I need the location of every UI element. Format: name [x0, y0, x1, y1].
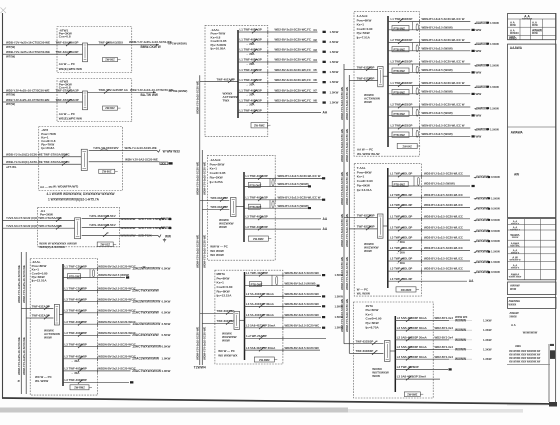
- svg-text:L3 5A-40Z3/3P 30mA: L3 5A-40Z3/3P 30mA: [246, 302, 274, 306]
- meter ZW-RMZ -2AAL: [70, 385, 89, 390]
- svg-text:ZW-RMZ: ZW-RMZ: [74, 386, 85, 390]
- svg-text:WDN-BYJ-3x2.5-SC20-WL/CC W: WDN-BYJ-3x2.5-SC20-WL/CC W: [422, 38, 465, 42]
- svg-text:PTB-5MZ: PTB-5MZ: [394, 27, 406, 31]
- title block main box: [508, 44, 557, 217]
- svg-text:WDM-YJV-5x16-SC50-WE: WDM-YJV-5x16-SC50-WE: [345, 172, 349, 205]
- svg-text:WD2-BYJ-3x2.5-SC20-WL/CC: WD2-BYJ-3x2.5-SC20-WL/CC: [424, 193, 463, 197]
- outgoing feeder wire -ATW1: [88, 44, 160, 46]
- surge sub-branch PTB2 -1AALE: [269, 200, 271, 208]
- svg-text:L1 TWF-40Z8/3P: L1 TWF-40Z8/3P: [391, 81, 413, 85]
- riser wire WL5: [343, 64, 345, 344]
- svg-text:WD2-BYJ-5x2.5 (WXW): WD2-BYJ-5x2.5 (WXW): [424, 182, 455, 186]
- svg-text:1.0KW: 1.0KW: [162, 357, 171, 361]
- svg-text:1.3KW: 1.3KW: [483, 338, 492, 342]
- svg-text:WDM-YJV-4x25+16-SC50-WE: WDM-YJV-4x25+16-SC50-WE: [17, 337, 21, 375]
- riser wire WL4: [201, 150, 203, 365]
- breaker QF2 -AP3: [62, 162, 68, 166]
- svg-text:L1 TWF-40Z3/3P: L1 TWF-40Z3/3P: [246, 271, 268, 275]
- svg-text:1.0KW: 1.0KW: [162, 369, 171, 373]
- breaker row L1 4-STA: [395, 320, 449, 322]
- svg-text:13A23WXWXWXW: 13A23WXWXWXW: [132, 300, 161, 304]
- svg-text:0.5KW: 0.5KW: [162, 333, 171, 337]
- breaker row L2 -MBTA: [245, 296, 322, 298]
- panel -1AAL enclosure: [205, 25, 268, 136]
- faint bottom line: [507, 404, 548, 406]
- svg-text:WWW/WW: WWW/WW: [120, 234, 135, 238]
- svg-text:TWX: TWX: [223, 99, 230, 103]
- incoming wire to -AP3 row1: [3, 156, 82, 158]
- svg-text:W WW W33: W WW W33: [163, 149, 180, 153]
- svg-text:TWF-63Z8/3P: TWF-63Z8/3P: [356, 349, 374, 353]
- riser wire WL1: [20, 252, 22, 309]
- breaker row L8 -1AAL: [238, 102, 318, 104]
- svg-text:1.5KW: 1.5KW: [491, 250, 500, 254]
- svg-text:WDM-YJV-5x16-SC50-WE: WDM-YJV-5x16-SC50-WE: [203, 327, 207, 360]
- svg-text:WXW: WXW: [364, 100, 372, 104]
- svg-text:WD2N-BV-3x2.5-SC20-WC: WD2N-BV-3x2.5-SC20-WC: [285, 292, 320, 296]
- surge sub-branch PTB4 4-AALE: [412, 86, 414, 94]
- svg-text:0.5KW: 0.5KW: [491, 175, 500, 179]
- ATSE U5 -2AAL: [54, 304, 59, 325]
- svg-text:L1 TWF-40PA/3P: L1 TWF-40PA/3P: [240, 28, 262, 32]
- svg-text:→ 20A: → 20A: [246, 93, 256, 97]
- svg-text:ZW-80Z: ZW-80Z: [105, 106, 115, 110]
- svg-text:PTB-5MZ: PTB-5MZ: [394, 69, 406, 73]
- svg-text:1.5KW: 1.5KW: [490, 106, 499, 110]
- title block header table: [508, 14, 557, 40]
- surge sub-branch PTB -MBTA: [271, 275, 273, 286]
- svg-text:WXWXW W: WXWXW W: [509, 260, 520, 262]
- svg-text:PTB-DMZ: PTB-DMZ: [251, 282, 263, 286]
- svg-text:WDM-YJV-5x16-SC50-WE: WDM-YJV-5x16-SC50-WE: [345, 214, 349, 247]
- svg-text:WD2N-BV-3x2.5-SC20-WC: WD2N-BV-3x2.5-SC20-WC: [285, 324, 320, 328]
- svg-text:L2 5AB-40Z8/3P 30mA: L2 5AB-40Z8/3P 30mA: [397, 326, 427, 330]
- svg-text:Ijs=13.01A: Ijs=13.01A: [357, 188, 373, 192]
- svg-text:0.5KW: 0.5KW: [162, 300, 171, 304]
- svg-text:(XX): (XX): [161, 161, 166, 165]
- svg-text:WDN-BYJ-5x2.5 (WXW): WDN-BYJ-5x2.5 (WXW): [278, 182, 309, 186]
- svg-text:L1 TWF-40PA/3P: L1 TWF-40PA/3P: [240, 108, 262, 112]
- svg-text:Ijs=20.8A: Ijs=20.8A: [41, 146, 55, 150]
- svg-text:L2 5AB-40Z8/3P 30mA: L2 5AB-40Z8/3P 30mA: [397, 316, 427, 320]
- breaker row L3 -1AAL: [238, 51, 318, 53]
- riser wire WL3: [199, 75, 201, 365]
- svg-text:AWAWA: AWAWA: [511, 131, 524, 135]
- svg-text:ZW-80Z: ZW-80Z: [102, 169, 112, 173]
- svg-text:WD2-BYJ-3x2.5-SC20-WL/CC: WD2-BYJ-3x2.5-SC20-WL/CC: [424, 257, 463, 261]
- svg-text:W2N-YJV-5A2-SC20-WE: W2N-YJV-5A2-SC20-WE: [125, 158, 158, 162]
- svg-text:0.5KW: 0.5KW: [491, 218, 500, 222]
- svg-text:25ACTWXWXWW: 25ACTWXWXWW: [132, 289, 160, 293]
- svg-text:WD2-BV-3x10-SC20-WC,FC: WD2-BV-3x10-SC20-WC,FC: [275, 98, 311, 102]
- breaker row L7 -MBTA: [245, 349, 321, 351]
- ATSE U11 4-STA: [385, 341, 391, 362]
- svg-text:XW WXWX XWX WXWXW XW: XW WXWX XWX WXWXW XW: [509, 355, 541, 357]
- svg-text:WW: WW: [476, 134, 482, 138]
- incoming wire WD21 to -ATW2: [3, 92, 83, 94]
- svg-text:WDN-BYJ-5x2.5 (WXW): WDN-BYJ-5x2.5 (WXW): [422, 68, 453, 72]
- panel -ATW1 enclosure: [57, 27, 132, 73]
- svg-text:WDN-BYJ-3x2.5-SC20-WL/CC W: WDN-BYJ-3x2.5-SC20-WL/CC W: [422, 124, 465, 128]
- svg-text:WXW: WXW: [532, 25, 539, 27]
- svg-text:WD2N-BV-3x2.5 (WXW): WD2N-BV-3x2.5 (WXW): [98, 273, 129, 277]
- svg-text:L3 TWF-40DL/3P: L3 TWF-40DL/3P: [65, 297, 87, 301]
- incoming breaker QF2 4-STA: [354, 352, 384, 354]
- svg-text:WDM-YJV-5x16-SC50-WE: WDM-YJV-5x16-SC50-WE: [203, 162, 207, 195]
- svg-text:WT(W): WT(W): [6, 93, 15, 97]
- breaker row L10 T-AAL: [388, 280, 467, 282]
- bus bar -1AAL: [237, 30, 239, 118]
- svg-text:WXW: WXW: [532, 33, 539, 35]
- breaker row L6 4-AALE: [388, 127, 470, 129]
- bus bar -2AAL: [62, 264, 64, 386]
- branch terminal 2: [159, 227, 162, 230]
- breaker row L1 -MBTA: [245, 274, 322, 276]
- svg-text:TWF-63A/63A/3P: TWF-63A/63A/3P: [56, 41, 79, 45]
- svg-text:WXWW: WXWW: [455, 328, 466, 332]
- svg-text:AWAW: AWAW: [509, 311, 518, 315]
- svg-text:L1 TWF-40DL/3P: L1 TWF-40DL/3P: [246, 174, 268, 178]
- svg-text:WD2-BYJ-3x2.5-SC20-WL/CC: WD2-BYJ-3x2.5-SC20-WL/CC: [424, 172, 463, 176]
- svg-text:L1 TWF-C20L/3P: L1 TWF-C20L/3P: [65, 286, 87, 290]
- breaker row L7 4-STA: [395, 378, 440, 380]
- svg-text:WDN-BYJ-5x2.5 (WXW): WDN-BYJ-5x2.5 (WXW): [422, 132, 453, 136]
- svg-text:WDM-YJV-5x16-SC50-WE: WDM-YJV-5x16-SC50-WE: [203, 235, 207, 268]
- svg-text:BA-TW WW: BA-TW WW: [141, 93, 158, 97]
- svg-text:WDB-YJ-5x10(C)-SC50-WE TWF-ST: WDB-YJ-5x10(C)-SC50-WE TWF-STA/5A/3P/2C: [6, 160, 70, 164]
- breaker row L8 -2AAL: [63, 358, 131, 360]
- svg-text:WXWW: WXWW: [455, 338, 466, 342]
- svg-text:TWF-63A/63A/3P: TWF-63A/63A/3P: [56, 50, 79, 54]
- incoming breaker QF1 4-STA: [354, 343, 384, 345]
- svg-text:WD2-BYJ-3x4: WD2-BYJ-3x4: [435, 316, 454, 320]
- panel -2AAL enclosure: [30, 259, 97, 396]
- meter ZW-80Z -AP3: [99, 169, 115, 173]
- svg-text:WD2N-BV-3x2.5-SC20-WC/C: WD2N-BV-3x2.5-SC20-WC/C: [98, 331, 136, 335]
- svg-text:1.5KW: 1.5KW: [330, 101, 339, 105]
- svg-text:TWF-5M/5A/3/2DX: TWF-5M/5A/3/2DX: [99, 40, 124, 44]
- svg-text:WD2-BV-3x10-SC20-WC,FC: WD2-BV-3x10-SC20-WC,FC: [275, 38, 311, 42]
- svg-text:N1: N1: [314, 28, 318, 32]
- svg-text:ZW-RMZ: ZW-RMZ: [254, 124, 265, 128]
- svg-text:ZW-80Z: ZW-80Z: [105, 58, 115, 62]
- svg-text:→ 20A: → 20A: [246, 62, 256, 66]
- svg-text:WGS(X)-2-S0/SDK: WGS(X)-2-S0/SDK: [39, 245, 66, 249]
- breaker row L7 -2AAL: [63, 346, 131, 348]
- svg-text:1.5KW: 1.5KW: [490, 42, 499, 46]
- svg-text:L3 5A-40Z3/3P 30mA: L3 5A-40Z3/3P 30mA: [246, 313, 274, 317]
- incoming breaker QF2 -2AAL: [30, 317, 53, 319]
- ground symbol: [163, 238, 166, 241]
- svg-text:L2 5AB-40Z8/3P 30mA: L2 5AB-40Z8/3P 30mA: [397, 355, 427, 359]
- svg-text:Ijs=3.25A: Ijs=3.25A: [209, 180, 223, 184]
- svg-text:WDN-BYJ-3x2.5-SC20-WL/CC W: WDN-BYJ-3x2.5-SC20-WL/CC W: [422, 60, 465, 64]
- svg-text:WL WXW: WL WXW: [357, 292, 370, 296]
- outgoing feeder wire -ATW2: [88, 91, 157, 93]
- breaker QF1 -AP3: [62, 154, 68, 158]
- riser WL3 tap to -1AAL: [200, 81, 205, 83]
- svg-text:1.5KW: 1.5KW: [330, 80, 339, 84]
- svg-text:TWF-STA/63A/3P: TWF-STA/63A/3P: [56, 88, 79, 92]
- svg-text:Cos=0.8: Cos=0.8: [59, 35, 71, 39]
- svg-text:WXW: WXW: [510, 288, 517, 291]
- breaker row L5 -2AAL: [63, 323, 131, 325]
- svg-text:WD2-BYJ-3x2.5-SC20-WL/CC: WD2-BYJ-3x2.5-SC20-WL/CC: [424, 203, 463, 207]
- stamp right edge: [548, 344, 550, 402]
- svg-text:AA: AA: [323, 111, 328, 115]
- svg-text:L1 TWF-40Z8/3P: L1 TWF-40Z8/3P: [391, 17, 413, 21]
- outgoing feeder wire 1 -AP3: [89, 150, 157, 152]
- svg-text:WDM-YJV-5x16-SC50-WE: WDM-YJV-5x16-SC50-WE: [196, 327, 200, 360]
- title block divider: [508, 126, 557, 128]
- svg-text:AWA: AWA: [515, 344, 521, 348]
- svg-text:PTB-5MZ: PTB-5MZ: [394, 112, 406, 116]
- svg-text:N2: N2: [314, 38, 318, 42]
- svg-text:WT(W): WT(W): [6, 54, 15, 58]
- breaker row L5 4-AALE: [388, 106, 470, 108]
- svg-text:L2 5AB-40Z8/3P 30mA: L2 5AB-40Z8/3P 30mA: [397, 336, 427, 340]
- svg-text:Ijs=13.51A: Ijs=13.51A: [31, 279, 47, 283]
- breaker row L3 -1AALE: [244, 218, 321, 220]
- svg-text:AWAWA: AWAWA: [509, 299, 521, 303]
- svg-text:PTB-5MZ: PTB-5MZ: [394, 133, 406, 137]
- svg-text:N3: N3: [314, 48, 318, 52]
- svg-text:13A23WXWXWXW: 13A23WXWXWXW: [132, 267, 161, 271]
- svg-text:WD2-BYJ-3x4: WD2-BYJ-3x4: [435, 336, 454, 340]
- svg-text:1.5KW: 1.5KW: [330, 60, 339, 64]
- incoming breaker QF2 -MBTA: [202, 322, 233, 324]
- meter ZW-8SZ -G1: [97, 242, 113, 247]
- svg-text:N6: N6: [314, 78, 318, 82]
- breaker row L7 -1AAL: [238, 92, 318, 94]
- svg-text:WX WXW WX: WX WXW WX: [218, 353, 237, 357]
- svg-text:WD2N-BV-3x2.5-SC20-WC/C: WD2N-BV-3x2.5-SC20-WC/C: [98, 297, 136, 301]
- generator output wire 1: [82, 218, 165, 220]
- svg-text:AA W — PC: AA W — PC: [59, 62, 76, 66]
- stamp area divider: [507, 363, 550, 365]
- svg-text:WD2-BYJ-3x2.5-SC20-WL/CC: WD2-BYJ-3x2.5-SC20-WL/CC: [424, 267, 463, 271]
- surge sub-branch PTB3 4-AALE: [412, 64, 414, 72]
- svg-text:→ 20A: → 20A: [246, 82, 256, 86]
- svg-text:ZW-RMZ: ZW-RMZ: [401, 288, 412, 292]
- breaker row L1 -2AAL: [63, 268, 131, 270]
- svg-text:1.5KW: 1.5KW: [330, 30, 339, 34]
- svg-text:WW: WW: [476, 70, 482, 74]
- breaker row L2 4-STA: [395, 329, 449, 331]
- svg-text:25ACTWXWXWXW: 25ACTWXWXWXW: [132, 369, 162, 373]
- svg-text:WD2-BV-3x10-SC20-WC,FC: WD2-BV-3x10-SC20-WC,FC: [275, 78, 311, 82]
- svg-text:WD2N-BV-3x2.5-SC20-WC: WD2N-BV-3x2.5-SC20-WC: [285, 302, 320, 306]
- svg-text:XWXW: XWXW: [512, 237, 519, 239]
- svg-text:YJV2-S0-CT-SC22 (C)K TWF-CTA/: YJV2-S0-CT-SC22 (C)K TWF-CTA/5A/3Pb: [6, 224, 62, 228]
- svg-text:N5: N5: [314, 68, 318, 72]
- svg-text:W: W: [143, 265, 146, 269]
- svg-text:WW: WW: [476, 113, 482, 117]
- svg-text:XWXWXW: XWXWXW: [522, 18, 532, 20]
- svg-text:AA: AA: [469, 279, 474, 283]
- svg-text:2.5KW: 2.5KW: [330, 40, 339, 44]
- incoming breaker QF1 -1AALE: [200, 199, 230, 201]
- svg-text:WXWW: WXWW: [455, 319, 466, 323]
- svg-text:WT(W): WT(W): [6, 45, 15, 49]
- meter ZW 4-STA: [404, 392, 420, 397]
- svg-text:T2WW4: T2WW4: [194, 366, 206, 370]
- generator output wire 3: [82, 235, 158, 237]
- bus bar T-AAL: [387, 168, 389, 288]
- incoming breaker QF2 T-AAL: [349, 228, 377, 230]
- breaker row L4 -1AALE: [244, 228, 321, 230]
- panel -1AALE enclosure: [207, 155, 275, 260]
- svg-text:L3 TWF-40DL/3P: L3 TWF-40DL/3P: [65, 331, 87, 335]
- svg-text:YJFS-4SZ/3X/3.5KV: YJFS-4SZ/3X/3.5KV: [89, 214, 116, 218]
- svg-text:WDM-YJV-5x16-SC50-WE: WDM-YJV-5x16-SC50-WE: [340, 214, 344, 247]
- svg-text:WDM-YJV-5x16-SC50-WE: WDM-YJV-5x16-SC50-WE: [340, 299, 344, 332]
- svg-text:WD2-BYJ-3x2.5-SC20-WL/CC: WD2-BYJ-3x2.5-SC20-WL/CC: [424, 246, 463, 250]
- svg-text:L2 TWF-40Z8/3P: L2 TWF-40Z8/3P: [391, 38, 413, 42]
- surge sub-branch PTB5 4-AALE: [412, 107, 414, 115]
- svg-text:WW W — PC: WW W — PC: [210, 245, 228, 249]
- breaker row L4 -MBTA: [245, 316, 322, 318]
- svg-text:WD2-BYJ-3x2.5-SC20-WL/CC: WD2-BYJ-3x2.5-SC20-WL/CC: [424, 236, 463, 240]
- svg-text:WD2N-BV-3x2.5-SC20-WC: WD2N-BV-3x2.5-SC20-WC: [285, 346, 320, 350]
- svg-text:XW WXWX XWX WXWXW XW: XW WXWX XWX WXWXW XW: [509, 358, 541, 360]
- breaker row L6 -1AAL: [238, 81, 318, 83]
- svg-text:XWWQ: XWWQ: [509, 39, 517, 41]
- svg-text:WD2N-BV-3x2.5-SC20-WC: WD2N-BV-3x2.5-SC20-WC: [285, 271, 320, 275]
- meter ZW-80Z -ATW2: [103, 106, 118, 110]
- ATSE U10 T-AAL: [378, 214, 384, 238]
- svg-text:WD2N-BV-3x2.5-SC20-WC: WD2N-BV-3x2.5-SC20-WC: [285, 313, 320, 317]
- meter ZW-RMZ T-AAL: [396, 287, 416, 292]
- svg-text:L2 5A-40Z3/3P 30mA: L2 5A-40Z3/3P 30mA: [246, 292, 274, 296]
- sheet border right: [555, 13, 557, 405]
- breaker row L2 T-AAL: [388, 196, 470, 198]
- svg-text:WWW/WW: WWW/WW: [120, 226, 135, 230]
- incoming breaker QF1 -2AAL: [30, 308, 53, 310]
- svg-text:25AC3WXWXWW: 25AC3WXWXWW: [132, 333, 159, 337]
- svg-text:ZW-RMZ: ZW-RMZ: [259, 358, 270, 362]
- bus bar -1AALE: [243, 172, 245, 242]
- svg-text:Ijs=8.75A: Ijs=8.75A: [365, 325, 379, 329]
- breaker row L5 -1AAL: [238, 71, 318, 73]
- svg-text:ZW-84Z: ZW-84Z: [402, 144, 412, 148]
- svg-text:1.5KW: 1.5KW: [330, 50, 339, 54]
- svg-text:0.5KW: 0.5KW: [491, 270, 500, 274]
- riser wire WL6: [348, 75, 350, 353]
- svg-text:WDN-BYJ-3x2.5-SC20-WL/CC W: WDN-BYJ-3x2.5-SC20-WL/CC W: [278, 174, 321, 178]
- svg-text:→ 30A: → 30A: [396, 251, 406, 255]
- breaker row L1 4-AALE: [388, 21, 470, 23]
- surge sub-branch PTB1 -1AALE: [269, 178, 271, 186]
- svg-text:WDN-BYJ-5x2.5 (WXW): WDN-BYJ-5x2.5 (WXW): [278, 204, 309, 208]
- breaker row L6 T-AAL: [388, 239, 470, 241]
- svg-text:ZW-RMZ: ZW-RMZ: [253, 237, 264, 241]
- svg-text:TWF-63ZA/3P: TWF-63ZA/3P: [32, 314, 50, 318]
- svg-text:0.5KW: 0.5KW: [491, 229, 500, 233]
- svg-text:PTB-DMZ: PTB-DMZ: [69, 275, 81, 279]
- incoming breaker -1AAL TWF-40ZA/3P: [205, 81, 238, 83]
- svg-text:WD2N-BV-3x2.5-SC20-WC/C: WD2N-BV-3x2.5-SC20-WC/C: [98, 309, 136, 313]
- svg-text:13ACTWXWXWXW: 13ACTWXWXWXW: [132, 345, 162, 349]
- svg-text:WE(E),WPE WW: WE(E),WPE WW: [59, 116, 82, 120]
- svg-text:AW: AW: [514, 173, 519, 177]
- breaker row L7 T-AAL: [388, 250, 470, 252]
- svg-text:1.5KW: 1.5KW: [491, 260, 500, 264]
- svg-text:N8: N8: [314, 99, 318, 103]
- outgoing feeder wire 2 -AP3: [89, 161, 160, 163]
- svg-text:TWF-STA/63A/3P: TWF-STA/63A/3P: [56, 98, 79, 102]
- svg-text:Ijs=10.05A: Ijs=10.05A: [210, 47, 226, 51]
- svg-text:1.5KW: 1.5KW: [490, 85, 499, 89]
- svg-text:ZW-8MZ: ZW-8MZ: [407, 392, 418, 396]
- surge sub-branch PTB2 4-AALE: [412, 43, 414, 51]
- svg-text:XWXW X: XWXW X: [511, 253, 520, 255]
- svg-text:1.5KW: 1.5KW: [490, 63, 499, 67]
- breaker row L5 T-AAL: [388, 229, 470, 231]
- incoming breaker QF1 4-AALE: [354, 69, 378, 71]
- riser wire WL2 lower run: [25, 318, 27, 394]
- svg-text:WD2-BYJ-3x4: WD2-BYJ-3x4: [435, 345, 454, 349]
- svg-text:WDM-YJV-4x25+16-SC50-WE: WDM-YJV-4x25+16-SC50-WE: [22, 337, 26, 375]
- incoming breaker QF1 T-AAL: [344, 217, 378, 219]
- breaker row L2 -2AAL: [63, 290, 131, 292]
- svg-text:1.5KW: 1.5KW: [490, 127, 499, 131]
- incoming wire WDB1 to -ATW1: [3, 44, 83, 46]
- svg-text:1.5KW: 1.5KW: [490, 21, 499, 25]
- svg-text:WD2N-BV-3x2.5-SC20-WC/C: WD2N-BV-3x2.5-SC20-WC/C: [98, 265, 136, 269]
- svg-text:uFT-WL: uFT-WL: [6, 165, 17, 169]
- svg-text:L1 TWF-40DL/3P: L1 TWF-40DL/3P: [246, 196, 268, 200]
- svg-text:WXWX: WXWX: [509, 304, 517, 307]
- svg-text:YJFS-VBJ/ZX/FWV: YJFS-VBJ/ZX/FWV: [93, 146, 119, 150]
- svg-text:-ATSW-(BMW): -ATSW-(BMW): [168, 89, 187, 93]
- breaker row L8 T-AAL: [388, 260, 470, 262]
- svg-text:TWD-YJV-4x35/3P AA: TWD-YJV-4x35/3P AA: [99, 88, 129, 92]
- ATSE U3 -AP3: [81, 149, 87, 170]
- svg-text:1.3KW: 1.3KW: [483, 357, 492, 361]
- svg-text:WDM-YJV-5x16-SC50-WE: WDM-YJV-5x16-SC50-WE: [345, 299, 349, 332]
- svg-text:WW: WW: [476, 49, 482, 53]
- breaker row L1 -1AALE: [244, 177, 325, 179]
- svg-text:0.5KW: 0.5KW: [162, 267, 171, 271]
- svg-text:WDM-YJV-5x16-SC50-WE: WDM-YJV-5x16-SC50-WE: [196, 235, 200, 268]
- surge sub-branch PTB T-AAL: [413, 176, 415, 186]
- meter ZW-RMZ -1AAL: [251, 123, 268, 128]
- svg-text:1 WXWXWXWXWX(E)S2-1-HT5.7A: 1 WXWXWXWXWX(E)S2-1-HT5.7A: [48, 197, 100, 201]
- svg-text:WDM-YJV-5x16-SC50-WE: WDM-YJV-5x16-SC50-WE: [340, 129, 344, 162]
- breaker row L3 -2AAL: [63, 301, 131, 303]
- svg-text:WD2-BYJ-3x4: WD2-BYJ-3x4: [435, 355, 454, 359]
- breaker row L5 4-STA: [395, 358, 449, 360]
- svg-text:WD2-BYJ-3x2.5-SC20-WL/CC: WD2-BYJ-3x2.5-SC20-WL/CC: [424, 226, 463, 230]
- svg-text:WW: WW: [165, 235, 171, 239]
- svg-text:W2N-YJ-4x10-SC20-WE: W2N-YJ-4x10-SC20-WE: [125, 146, 157, 150]
- svg-text:4.1 WXWR WDWXWXW, DXWXWXW WXWX: 4.1 WXWR WDWXWXW, DXWXWXW WXWXW: [47, 192, 115, 196]
- surge sub-branch PTB1 4-AALE: [412, 22, 414, 30]
- breaker row L6 -2AAL: [63, 334, 131, 336]
- surge sub-branch PTB -2AAL: [89, 269, 91, 278]
- svg-text:2.5KW: 2.5KW: [162, 322, 171, 326]
- svg-text:SZD-TC/K: SZD-TC/K: [138, 234, 152, 238]
- svg-text:WDN-BYJ-5x2.5 (WXW): WDN-BYJ-5x2.5 (WXW): [422, 25, 453, 29]
- breaker row L9 T-AAL: [388, 270, 470, 272]
- svg-text:WDN-BYJ-3x2.5-SC20-WL/CC W: WDN-BYJ-3x2.5-SC20-WL/CC W: [278, 196, 321, 200]
- svg-text:L3 TWF-40DL/3P: L3 TWF-40DL/3P: [65, 309, 87, 313]
- svg-text:WD2-BYJ-3x2.5-SC20-WL/CC: WD2-BYJ-3x2.5-SC20-WL/CC: [424, 214, 463, 218]
- svg-text:AA — PC: AA — PC: [40, 185, 53, 189]
- svg-text:XW WXWX XWX WXWXW XW: XW WXWX XWX WXWXW XW: [509, 351, 541, 353]
- incoming breaker QF1 -MBTA: [200, 312, 233, 314]
